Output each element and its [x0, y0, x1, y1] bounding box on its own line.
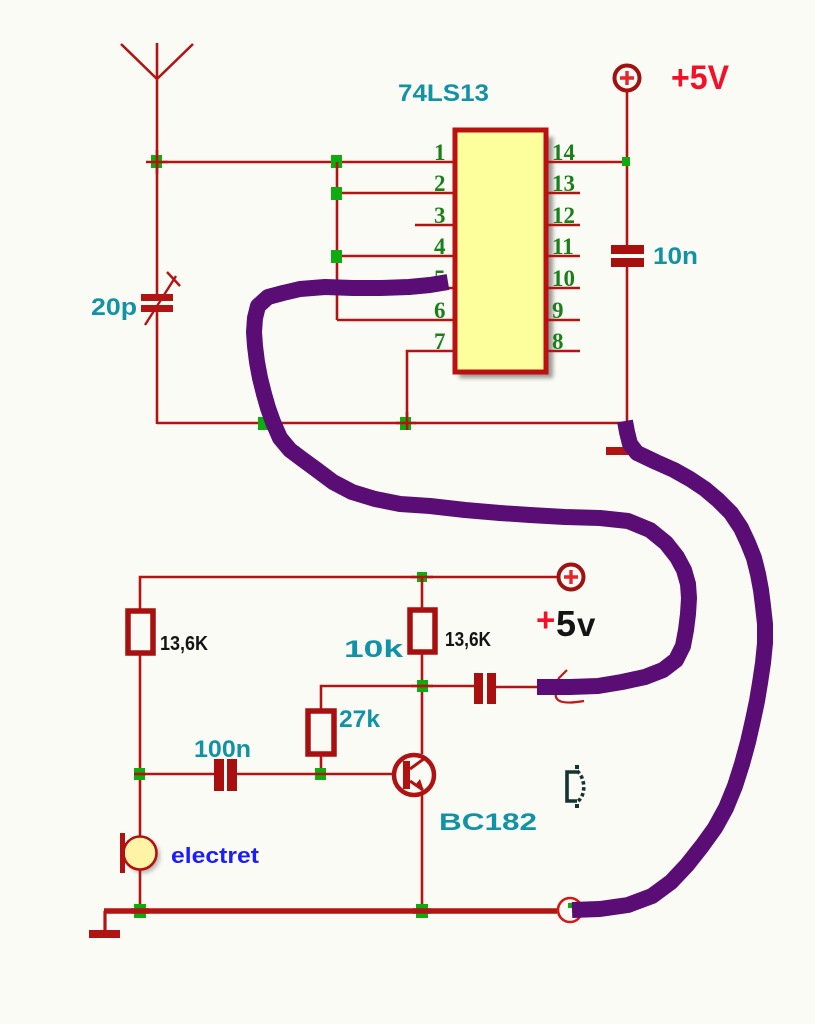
wire pin11 stub — [546, 255, 580, 258]
wire antenna vertical — [156, 79, 159, 296]
svg-text:10k: 10k — [344, 636, 404, 663]
node emitter/ground junction — [416, 904, 428, 918]
svg-text:13,6K: 13,6K — [160, 633, 208, 655]
svg-text:3: 3 — [434, 203, 446, 228]
wire R3 to base node — [320, 754, 323, 774]
svg-text:+5V: +5V — [671, 59, 729, 97]
node rail/pin7 junction — [400, 417, 411, 430]
wire pin3 stub — [415, 224, 455, 227]
wire pin6 — [337, 319, 455, 322]
svg-text:74LS13: 74LS13 — [398, 80, 489, 107]
annotation purple curve 1 (pin5 to output cap) — [254, 282, 689, 687]
node output green dot — [568, 903, 572, 908]
wire C3 to base — [237, 773, 392, 776]
svg-text:5: 5 — [556, 603, 576, 644]
capacitor C3 100n plates — [214, 759, 224, 791]
wire pin13 stub — [546, 192, 580, 195]
node top-rail junction — [417, 572, 427, 582]
wire R1 to mic — [139, 653, 142, 837]
capacitor C1 trimmer arrow — [145, 276, 176, 325]
capacitor C4 output plates — [474, 673, 483, 704]
wire 20p to bottom rail — [156, 311, 159, 424]
power +5V symbol (top) — [615, 66, 640, 91]
node base junction — [315, 768, 326, 780]
resistor R2 13,6K body (collector load) — [410, 610, 435, 652]
microphone MIC1 electret body — [124, 837, 157, 870]
wire pin4 — [337, 255, 455, 258]
node bus/pin4 junction — [331, 250, 342, 263]
node pin14 junction — [622, 157, 630, 166]
resistor R3 27k body — [308, 711, 334, 754]
wire pin2 — [337, 192, 455, 195]
svg-text:+: + — [536, 601, 555, 638]
capacitor C2 10n plates — [611, 245, 644, 254]
wire input bus vertical — [336, 162, 339, 320]
node mic/C3 junction — [134, 768, 145, 780]
wire 10n to rail — [626, 267, 629, 424]
svg-text:BC182: BC182 — [439, 809, 537, 836]
wire ground rail (bottom) — [104, 908, 557, 914]
wire pin9 stub — [546, 319, 580, 322]
wire mic node to C3 — [140, 773, 214, 776]
resistor R1 13,6K body — [128, 611, 153, 653]
svg-text:6: 6 — [434, 298, 446, 323]
IC U1 74LS13 shadow — [459, 137, 553, 378]
node antenna/pin1 junction — [151, 155, 162, 168]
wire R2 to collector — [421, 652, 424, 754]
svg-text:1: 1 — [434, 140, 446, 165]
ground symbol (top right) — [606, 447, 633, 455]
svg-text:electret: electret — [171, 843, 260, 868]
wire top-circuit ground rail — [157, 422, 627, 425]
wire collector node to 27k — [321, 686, 422, 711]
svg-text:2: 2 — [434, 171, 446, 196]
wire +5V vertical — [626, 91, 629, 246]
ground symbol (bottom left) — [103, 911, 106, 931]
wire rail to R2 — [421, 577, 424, 610]
transistor Q1 BC182 — [394, 755, 434, 795]
speaker-out icon — [567, 765, 584, 808]
svg-text:v: v — [577, 606, 596, 643]
node mic/ground junction — [134, 904, 146, 918]
annotation red hook at output — [556, 670, 584, 703]
svg-text:20p: 20p — [91, 294, 137, 321]
wire C4 to output — [496, 686, 540, 689]
wire pin5 (under purple) — [420, 287, 455, 290]
node rail junction A — [258, 417, 269, 430]
svg-text:13,6K: 13,6K — [445, 629, 491, 651]
wire pin1 horizontal — [157, 161, 455, 164]
wire pin7 — [407, 351, 455, 423]
power +5v symbol (bottom) — [559, 565, 584, 590]
svg-text:10n: 10n — [653, 243, 698, 270]
wire pin14 to +5V — [546, 161, 627, 164]
wire pin12 stub — [546, 224, 580, 227]
output connector circle — [558, 898, 582, 922]
wire pin8 stub — [546, 350, 580, 353]
wire pin10 stub — [546, 287, 580, 290]
node bus/pin2 junction — [331, 187, 342, 200]
svg-text:27k: 27k — [339, 706, 381, 733]
svg-text:7: 7 — [434, 329, 446, 354]
IC U1 74LS13 body — [455, 130, 546, 372]
wire emitter to ground rail — [421, 795, 424, 911]
capacitor C1 20p trimmer plates — [141, 294, 173, 301]
node bus/pin1 junction — [331, 155, 342, 168]
svg-text:100n: 100n — [194, 736, 251, 763]
annotation purple curve 2 (ground to output) — [572, 421, 765, 910]
microphone MIC1 electrode bar — [120, 833, 125, 873]
wire +5 top rail — [140, 577, 557, 653]
wire collector node to C4 — [422, 685, 474, 688]
antenna — [121, 43, 193, 79]
svg-text:4: 4 — [434, 234, 446, 259]
microphone MIC1 electret shadow — [126, 839, 160, 873]
wire mic to ground rail — [139, 869, 142, 911]
node collector/output junction — [417, 680, 428, 692]
